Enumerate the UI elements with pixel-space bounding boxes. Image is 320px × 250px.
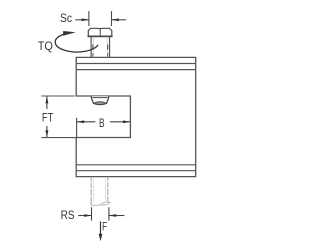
svg-text:F: F xyxy=(102,220,107,233)
svg-text:TQ: TQ xyxy=(38,40,53,53)
svg-text:B: B xyxy=(99,117,105,130)
svg-text:Sc: Sc xyxy=(60,12,72,25)
svg-text:RS: RS xyxy=(61,209,75,222)
svg-text:FT: FT xyxy=(42,112,53,125)
